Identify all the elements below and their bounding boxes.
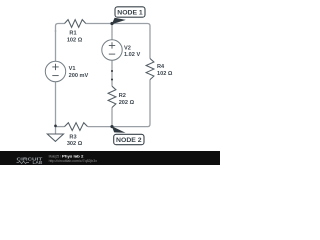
terminal dot R2 top [111,78,113,80]
svg-text:1.02 V: 1.02 V [124,52,140,58]
voltage source V1 [45,61,65,81]
wire left branch V1 top [55,30,57,62]
wire bottom-left stub to R3 [56,126,65,128]
wire middle branch node1 to V2 [111,24,113,41]
resistor R1 [65,20,86,28]
svg-text:Matej25 /: Matej25 / [49,154,61,158]
node NODE 1 callout pointer [112,18,126,24]
wire right branch R4 bottom to corner [88,80,150,127]
resistor R3 [65,123,88,131]
svg-text:V2: V2 [124,45,131,51]
terminal dot V2 bottom [111,70,113,72]
junction node 1 [110,22,113,25]
svg-text:NODE 1: NODE 1 [117,9,143,16]
svg-text:LAB: LAB [33,160,43,165]
svg-text:V1: V1 [69,66,76,72]
svg-text:202 Ω: 202 Ω [119,100,135,106]
voltage source V2 [102,40,122,60]
junction node 2 [110,125,113,128]
junction ground [54,125,57,128]
wire left branch V1 bottom to ground junction [55,82,57,127]
svg-text:NODE 2: NODE 2 [116,137,142,144]
svg-text:R1: R1 [69,31,76,37]
svg-text:102 Ω: 102 Ω [157,71,173,77]
svg-text:Phys lab 2: Phys lab 2 [62,154,83,158]
svg-text:R2: R2 [119,93,126,99]
svg-text:R4: R4 [157,64,165,70]
node NODE 1 box [115,7,145,17]
wire R1 to top-right corner down to R4 [86,24,150,59]
svg-text:302 Ω: 302 Ω [67,141,83,147]
svg-text:http://circuitlab.com/c/7q82jb: http://circuitlab.com/c/7q82jb3x [49,159,98,163]
svg-text:R3: R3 [69,134,76,140]
svg-text:102 Ω: 102 Ω [67,37,83,43]
node NODE 2 callout pointer [112,126,126,133]
footer logo resistor glyph + LAB [17,161,30,163]
resistor R4 [146,59,154,80]
svg-text:200 mV: 200 mV [69,73,89,79]
wire: outer loop top/left/right/bottom [56,24,151,127]
wire middle branch R2 to node2 [111,108,113,127]
wire top-left stub to R1 [56,24,65,33]
resistor R2 [108,86,116,107]
footer bar [0,151,220,165]
ground [47,127,63,142]
wire middle branch V2 to R2 [111,60,113,86]
node NODE 2 box [114,134,144,144]
